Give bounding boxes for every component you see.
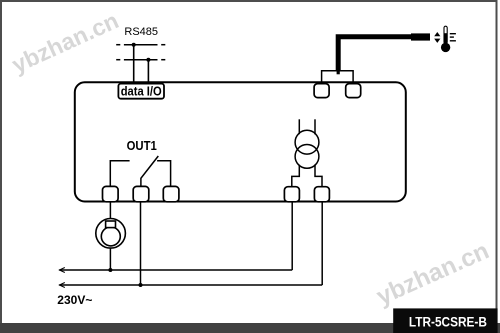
terminal 7 (sensor) — [346, 84, 361, 98]
arrow supply line 1 — [59, 268, 64, 273]
wire lamp to supply line 1 — [109, 248, 111, 270]
relay OUT1 blade — [141, 156, 158, 186]
svg-text:data I/O: data I/O — [121, 84, 162, 99]
transformer T1 secondary winding — [295, 145, 319, 169]
wire terminal 2 to supply line 2 — [140, 202, 142, 285]
wire terminal 1 to lamp — [109, 202, 111, 219]
data I/O port box — [118, 84, 164, 99]
wire transformer bottom right to terminal 5 — [315, 164, 322, 187]
thermometer icon: stem — [444, 26, 447, 43]
svg-text:OUT1: OUT1 — [127, 139, 157, 153]
svg-text:ybzhan.cn: ybzhan.cn — [8, 7, 122, 78]
RS485 bus line A (dashed) — [116, 44, 165, 46]
sensor probe body — [411, 33, 430, 40]
terminal 4 (supply L) — [284, 187, 299, 202]
supply line 1 — [59, 269, 292, 271]
svg-text:LTR-5CSRE-B: LTR-5CSRE-B — [409, 314, 487, 329]
terminal 2 (OUT1 common) — [133, 186, 149, 201]
svg-text:RS485: RS485 — [124, 26, 158, 38]
svg-text:230V~: 230V~ — [57, 293, 92, 307]
wire terminal 4 down to supply line 1 — [291, 202, 293, 270]
thermometer icon: bulb — [441, 43, 450, 52]
junction dot lamp / line 1 — [108, 268, 112, 272]
sensor connector bracket — [322, 71, 354, 84]
terminal 1 (OUT1 NC) — [103, 186, 119, 201]
terminal 6 (sensor) — [314, 84, 329, 98]
relay OUT1 fixed contact right — [157, 161, 171, 187]
sensor cable (thick) — [338, 37, 411, 72]
thermometer icon: down arrow — [434, 39, 440, 43]
junction dot terminal2 / line 2 — [139, 283, 143, 287]
RS485 bus line B (dashed) — [116, 59, 165, 61]
junction dot on bus A — [132, 43, 136, 47]
thermometer icon: up arrow — [434, 32, 440, 36]
bottom bar — [0, 323, 500, 333]
wire transformer top left — [298, 119, 300, 134]
lamp / actuator M1 — [96, 219, 126, 249]
relay OUT1 fixed contact left — [110, 161, 129, 187]
wire transformer top right — [314, 119, 316, 134]
wire transformer bottom left to terminal 4 — [292, 165, 300, 187]
svg-text:ybzhan.cn: ybzhan.cn — [373, 237, 493, 310]
terminal 3 (OUT1 NO) — [163, 186, 179, 201]
junction dot on bus B — [146, 58, 150, 62]
arrow supply line 2 — [59, 283, 64, 288]
supply line 2 — [59, 284, 322, 286]
wire terminal 5 down to supply line 2 — [321, 202, 323, 285]
terminal 5 (supply N) — [314, 187, 329, 202]
wire RS485 A to data I/O — [133, 45, 135, 85]
transformer T1 primary winding — [295, 130, 319, 154]
model label LTR-5CSRE-B — [393, 308, 497, 333]
wire RS485 B to data I/O — [147, 60, 149, 85]
thermometer icon: scale marks — [450, 34, 456, 41]
controller outline U1 — [75, 82, 406, 201]
